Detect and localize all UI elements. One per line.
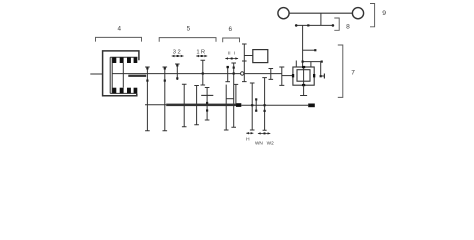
svg-text:W2: W2 [267,141,274,146]
differential outer box [293,67,314,85]
svg-text:II: II [228,51,231,56]
gear pair A [146,67,148,131]
ring gear K [281,67,283,85]
tick small shaft [255,99,257,111]
gear II lower [225,85,227,130]
svg-text:WN: WN [255,141,263,146]
shaft I2 [264,78,266,131]
gear E (1st) [196,86,198,125]
svg-text:5: 5 [187,26,191,33]
axle wheel left [278,8,289,19]
drop to diff box top left [295,61,297,68]
branch drop vertical [320,62,322,77]
countershaft thin left part [145,104,166,106]
upper shaft H4 with box link [243,44,245,82]
control box [253,50,268,63]
clutch inner plate verticals [110,57,112,93]
diff output down [303,85,305,96]
differential bevel gears [292,66,315,86]
shaft I1 [251,83,253,130]
axle drop vertical [320,13,322,25]
clutch disc centre plate [122,63,124,88]
bracket 5 [159,38,216,42]
bracket 4 [96,37,142,41]
shift arrow 3-2 [172,55,184,57]
final drive pinion blob [236,103,241,107]
svg-text:9: 9 [382,10,386,17]
box stub [244,55,252,57]
gear II upper [227,67,229,82]
open circle on input shaft [241,72,244,75]
svg-text:H: H [246,136,250,142]
dimension H [246,132,253,134]
bracket 7 [338,45,343,97]
clutch output hub thick bar [128,75,146,77]
clutch top rail [110,56,137,58]
countershaft thick part [166,104,236,107]
svg-text:6: 6 [229,26,233,33]
input shaft [112,73,282,75]
link to side bar [321,75,325,77]
clutch friction plates bottom row [112,88,137,94]
axle wheel right [352,8,363,19]
axle line [289,12,353,14]
side shaft line [296,24,334,26]
main vertical to diff [302,25,304,67]
svg-text:7: 7 [351,69,355,76]
bracket 8 [334,18,339,30]
svg-text:I: I [234,51,235,56]
short capped gear on countershaft [235,84,237,104]
link ring gear to diff [282,75,293,77]
gear F (reverse, input shaft) [202,60,204,85]
lower output end blob [308,104,315,108]
svg-text:R: R [201,49,205,55]
branch lower [303,61,322,63]
lower output line [241,104,308,106]
dimension WN W2 [258,132,270,134]
svg-text:2: 2 [177,49,180,55]
shift arrow II-I [225,57,238,59]
gear pair B [164,67,166,131]
branch upper [303,49,316,51]
clutch housing outer C [103,51,139,96]
svg-text:8: 8 [346,23,350,30]
bracket 9 [370,4,375,27]
bracket 6 [223,38,240,42]
small side bar [323,74,325,79]
svg-text:3: 3 [173,49,176,55]
gear I upper long [233,63,235,127]
drop to diff box top right [310,62,312,67]
differential shaft through [303,67,305,85]
differential inner box [297,70,310,82]
clutch bottom rail [110,92,137,94]
shift arrow 1-R [196,55,207,57]
gear C (3rd) [176,64,178,80]
coupling bar section 6 [226,98,234,100]
engine stub shaft [90,73,102,75]
svg-text:4: 4 [117,26,121,33]
clutch friction plates top row [112,57,137,63]
synchro G with crossbar [206,88,208,121]
gear D (2nd) [183,84,185,127]
gear J on input shaft [270,69,272,80]
svg-text:1: 1 [196,49,199,55]
